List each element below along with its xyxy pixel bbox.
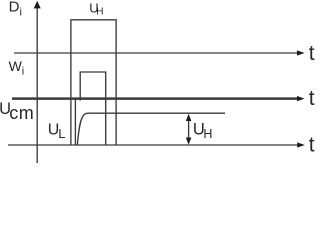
- axis t (U_cm): [8, 144, 299, 146]
- arrowhead right (U_cm axis): [297, 142, 305, 147]
- reference vertical line: [74, 100, 76, 146]
- U_cm response curve: [77, 113, 225, 144]
- svg-text:t: t: [309, 134, 315, 157]
- arrowhead right (D_i axis): [297, 50, 305, 55]
- svg-text:D: D: [9, 0, 20, 16]
- axis t (W_i) thick: [12, 97, 299, 100]
- vertical axis line: [36, 7, 38, 164]
- pulse D_i: [71, 20, 116, 145]
- dimension arrowhead up: [186, 114, 192, 121]
- dimension arrow line U_H: [188, 117, 190, 143]
- pulse W_i: [80, 72, 106, 145]
- svg-text:i: i: [20, 6, 22, 18]
- arrowhead right (W_i axis): [297, 96, 305, 101]
- label U_H (top pulse): [89, 0, 103, 17]
- label W_i: [9, 58, 25, 78]
- label U_L: [48, 121, 66, 141]
- dimension arrowhead down: [186, 138, 192, 145]
- svg-text:t: t: [309, 87, 315, 110]
- label D_i: [9, 0, 22, 18]
- svg-text:H: H: [96, 6, 103, 17]
- svg-text:t: t: [309, 42, 315, 65]
- svg-text:i: i: [22, 66, 24, 78]
- svg-text:L: L: [58, 126, 65, 141]
- svg-text:H: H: [203, 127, 212, 141]
- label U_cm: [0, 100, 34, 123]
- arrowhead up (vertical axis): [34, 1, 41, 9]
- svg-text:cm: cm: [9, 103, 34, 123]
- label U_H (amplitude): [193, 121, 213, 142]
- svg-text:W: W: [9, 58, 23, 74]
- axis t (D_i): [14, 52, 299, 54]
